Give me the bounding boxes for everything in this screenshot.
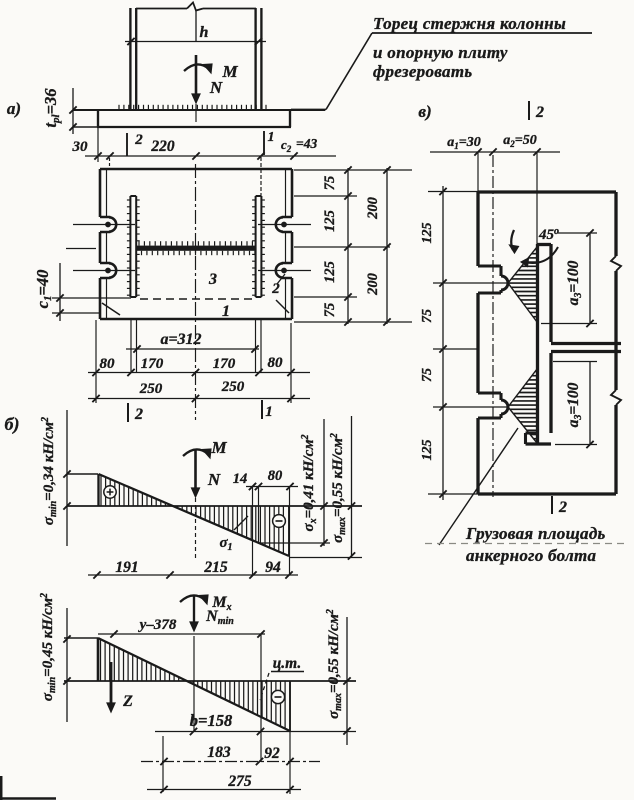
svg-text:σx=0,41 кН/см2: σx=0,41 кН/см2 (300, 434, 319, 531)
svg-text:a1=30: a1=30 (447, 135, 480, 151)
svg-text:анкерного болта: анкерного болта (466, 546, 597, 565)
svg-text:h: h (200, 24, 209, 41)
svg-text:3: 3 (208, 271, 217, 288)
svg-text:275: 275 (227, 773, 252, 790)
svg-text:92: 92 (264, 745, 280, 762)
svg-text:75: 75 (322, 176, 338, 191)
svg-text:M: M (221, 62, 238, 81)
svg-text:30: 30 (72, 139, 89, 155)
svg-text:а): а) (7, 99, 21, 118)
svg-text:80: 80 (100, 356, 116, 372)
svg-text:фрезеровать: фрезеровать (373, 62, 472, 81)
svg-text:250: 250 (221, 379, 245, 395)
svg-text:1: 1 (222, 303, 230, 320)
svg-text:80: 80 (268, 468, 283, 484)
svg-text:191: 191 (115, 559, 138, 576)
svg-text:1: 1 (268, 130, 275, 145)
svg-text:215: 215 (203, 559, 228, 576)
svg-text:2: 2 (134, 406, 143, 423)
svg-text:Z: Z (122, 693, 133, 710)
svg-text:200: 200 (365, 197, 381, 220)
svg-text:M: M (210, 438, 227, 457)
svg-text:80: 80 (268, 355, 284, 371)
svg-text:2: 2 (558, 499, 567, 516)
svg-text:125: 125 (322, 210, 338, 232)
svg-text:2: 2 (271, 281, 280, 297)
svg-text:75: 75 (420, 368, 435, 382)
svg-text:75: 75 (420, 309, 435, 323)
svg-text:в): в) (418, 102, 431, 121)
svg-text:2: 2 (134, 132, 143, 148)
svg-text:125: 125 (420, 440, 435, 461)
svg-text:a=312: a=312 (160, 331, 201, 348)
svg-text:c1=40: c1=40 (33, 270, 54, 309)
svg-text:б): б) (5, 414, 20, 435)
svg-text:183: 183 (207, 744, 231, 761)
svg-text:94: 94 (265, 559, 281, 576)
svg-text:N: N (209, 78, 223, 97)
svg-text:y–378: y–378 (138, 617, 177, 633)
svg-text:1: 1 (265, 404, 273, 420)
svg-text:b=158: b=158 (190, 711, 232, 730)
svg-text:и опорную плиту: и опорную плиту (373, 43, 508, 62)
svg-text:75: 75 (322, 303, 338, 318)
svg-text:Торец стержня колонны: Торец стержня колонны (373, 14, 566, 33)
svg-text:14: 14 (233, 471, 248, 487)
svg-text:=43: =43 (296, 136, 317, 151)
svg-text:170: 170 (213, 356, 236, 372)
svg-text:a2=50: a2=50 (503, 133, 536, 149)
svg-text:N: N (207, 470, 221, 489)
svg-text:Грузовая площадь: Грузовая площадь (465, 524, 606, 543)
svg-text:250: 250 (139, 381, 163, 397)
svg-text:a3=100: a3=100 (565, 260, 584, 305)
svg-text:125: 125 (420, 223, 435, 244)
svg-text:ц.т.: ц.т. (273, 655, 302, 672)
svg-text:220: 220 (150, 138, 175, 155)
svg-text:125: 125 (322, 261, 338, 283)
svg-text:a3=100: a3=100 (565, 382, 584, 427)
svg-text:200: 200 (365, 273, 381, 296)
svg-text:2: 2 (535, 104, 544, 121)
svg-text:170: 170 (141, 356, 164, 372)
